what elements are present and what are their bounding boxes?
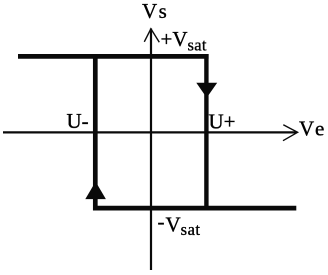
svg-text:Ve: Ve	[299, 117, 324, 141]
svg-text:Vs: Vs	[142, 0, 167, 23]
svg-text:U+: U+	[209, 109, 236, 133]
svg-text:U-: U-	[67, 109, 89, 133]
